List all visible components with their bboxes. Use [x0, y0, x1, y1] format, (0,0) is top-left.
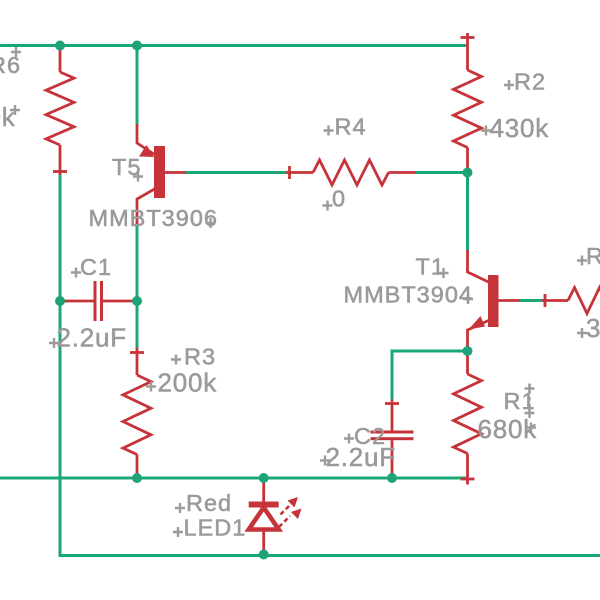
label R2 anchor cross — [504, 80, 514, 90]
wire T5 base to R4 left — [185, 171, 287, 174]
svg-text:R1: R1 — [504, 388, 536, 414]
wire top rail — [0, 44, 466, 47]
wire T1 emitter node to C2 top — [392, 351, 467, 400]
label R3 value anchor cross — [146, 382, 156, 392]
wire from top rail down to T5 emitter — [136, 46, 139, 126]
junction node C1 right — [132, 296, 142, 306]
wire T1 base to R5 — [518, 299, 542, 302]
label R5 value anchor cross — [577, 328, 587, 338]
label LED1 anchor cross — [173, 527, 183, 537]
label R6 anchor cross — [11, 47, 21, 57]
svg-text:2.2uF: 2.2uF — [57, 323, 128, 353]
svg-text:MMBT3906: MMBT3906 — [89, 205, 218, 231]
resistor R2 — [454, 33, 482, 171]
label R6 value anchor cross — [10, 105, 20, 115]
resistor R5 — [542, 288, 600, 314]
wire bottom rail — [59, 554, 600, 557]
label MMBT3906 anchor cross — [206, 218, 216, 228]
label R5 anchor cross — [577, 256, 587, 266]
label R2 value anchor cross — [481, 126, 491, 136]
label C2 value anchor cross — [320, 456, 330, 466]
svg-text:C1: C1 — [80, 254, 112, 280]
resistor R1 — [454, 352, 482, 485]
label C2 anchor cross — [344, 434, 354, 444]
junction node top T5 — [132, 41, 142, 51]
label R3 anchor cross — [171, 355, 181, 365]
label R1 anchor cross bottom — [525, 408, 535, 418]
label C1 value anchor cross — [49, 338, 59, 348]
junction node LED top — [259, 473, 269, 483]
svg-text:Red: Red — [186, 490, 232, 516]
label T1 anchor cross — [439, 268, 449, 278]
svg-text:R3: R3 — [184, 344, 216, 370]
junction node R2/R4/T1 — [463, 168, 473, 178]
label R1 leader line — [528, 384, 530, 417]
transistor T5 (PNP MMBT3906) — [137, 124, 186, 224]
label R4 value anchor cross — [323, 201, 333, 211]
wire R4 right to R2 bottom node — [416, 171, 467, 174]
label T5 anchor cross — [133, 172, 143, 182]
junction node C1 left — [55, 296, 65, 306]
svg-text:330k: 330k — [586, 313, 600, 343]
svg-text:R6: R6 — [0, 52, 21, 78]
label R1 anchor cross top — [525, 384, 535, 394]
resistor R4 — [286, 160, 416, 185]
label R4 anchor cross — [324, 126, 334, 136]
junction node LED bottom — [259, 550, 269, 560]
junction node C2 bottom — [387, 473, 397, 483]
svg-text:2.2uF: 2.2uF — [326, 442, 397, 472]
svg-text:R4: R4 — [335, 114, 367, 140]
transistor T1 (NPN MMBT3904) — [468, 250, 520, 352]
resistor R3 — [123, 348, 151, 478]
svg-text:0: 0 — [332, 186, 346, 212]
junction node top-left — [55, 41, 65, 51]
junction node T1 emitter — [463, 346, 473, 356]
resistor R6 — [46, 46, 74, 175]
svg-text:430k: 430k — [490, 113, 550, 143]
label R1 value anchor cross — [526, 423, 536, 433]
wire left vertical from R6 bottom to bottom rail — [59, 174, 62, 556]
svg-text:R2: R2 — [514, 69, 546, 95]
wire R2 bottom node down to T1 collector — [466, 173, 469, 252]
junction node R3 bottom — [132, 473, 142, 483]
label Red anchor cross — [175, 503, 185, 513]
LED1 — [249, 478, 302, 555]
svg-text:T1: T1 — [416, 254, 445, 280]
svg-text:R5: R5 — [586, 243, 600, 269]
label MMBT3904 anchor cross — [463, 294, 473, 304]
wire mid rail y=478 — [0, 477, 466, 480]
svg-text:LED1: LED1 — [184, 515, 247, 541]
svg-text:680k: 680k — [478, 414, 538, 444]
wire from T5 collector to R3 top — [136, 224, 139, 349]
svg-text:200k: 200k — [158, 368, 218, 398]
label C1 anchor cross — [71, 268, 81, 278]
capacitor C2 — [371, 400, 414, 478]
LED1 light arrows — [279, 497, 302, 527]
capacitor C1 — [60, 281, 137, 321]
svg-text:MMBT3904: MMBT3904 — [344, 282, 473, 308]
svg-text:430k: 430k — [0, 102, 16, 132]
